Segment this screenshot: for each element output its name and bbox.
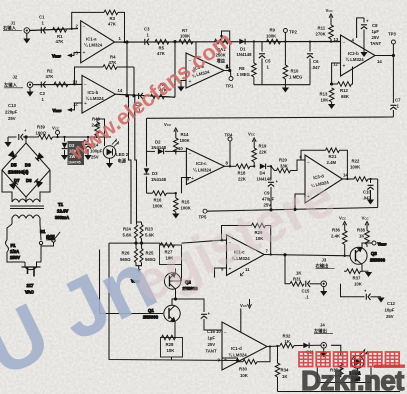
svg-text:1µF: 1µF xyxy=(372,29,380,34)
resistor R4 feedback IC1-b xyxy=(75,55,135,85)
svg-text:13: 13 xyxy=(73,80,78,85)
capacitor C6 xyxy=(307,40,321,84)
ground under J2 xyxy=(26,88,33,97)
ground under J4 xyxy=(320,348,327,357)
svg-text:10µF: 10µF xyxy=(385,308,395,313)
wire Vref arrow IC1-b pin12 xyxy=(53,103,83,113)
svg-text:R11: R11 xyxy=(318,26,326,31)
svg-text:10K: 10K xyxy=(167,348,176,353)
resistor R19 xyxy=(252,144,268,168)
svg-text:VCC: VCC xyxy=(240,303,248,308)
wire IC1-c minus input from summing xyxy=(182,240,227,243)
resistor R13 xyxy=(320,88,334,104)
node Q1-Q2 junction xyxy=(172,295,177,306)
svg-text:D3: D3 xyxy=(152,171,158,176)
wire Vref arrow IC1-a pin3 xyxy=(52,53,81,59)
capacitor C9 electrolytic xyxy=(262,166,279,210)
svg-text:25V: 25V xyxy=(8,116,16,121)
svg-text:R9: R9 xyxy=(270,28,276,33)
resistor R6 xyxy=(151,82,176,99)
diode D4 xyxy=(257,164,273,182)
wire IC3-d output xyxy=(342,178,354,180)
transistor Q2 2N3906 xyxy=(164,265,198,296)
ground IC3-a plus input xyxy=(177,81,186,92)
resistor R29 feedback xyxy=(222,223,272,255)
resistor R18 xyxy=(224,164,254,182)
op-amp IC3-a xyxy=(186,42,224,88)
ground under J3 xyxy=(320,287,327,296)
svg-text:−: − xyxy=(343,40,346,46)
svg-text:R32: R32 xyxy=(283,334,291,339)
svg-text:R2: R2 xyxy=(47,69,53,74)
power Vcc for R11 xyxy=(326,8,334,23)
wire J1 input row A xyxy=(30,29,78,31)
ground under C8 xyxy=(360,52,367,57)
svg-text:1N4148: 1N4148 xyxy=(151,145,167,150)
capacitor C5 xyxy=(259,42,271,85)
svg-text:10K: 10K xyxy=(240,373,249,378)
resistor R22 xyxy=(350,159,378,182)
svg-text:C8: C8 xyxy=(372,23,378,28)
power Vcc for R38 xyxy=(362,216,370,231)
svg-text:C6: C6 xyxy=(313,59,319,64)
test point TP4 xyxy=(225,133,233,168)
svg-text:2N3906: 2N3906 xyxy=(370,258,386,263)
diode D2 xyxy=(147,140,177,155)
svg-text:−: − xyxy=(224,330,227,336)
resistor R2 xyxy=(46,69,69,87)
svg-text:J2: J2 xyxy=(13,75,18,80)
op-amp IC1-b xyxy=(73,75,123,113)
ground under J1 xyxy=(23,33,30,43)
capacitor C11 xyxy=(303,343,321,355)
capacitor C10 xyxy=(363,178,374,201)
svg-text:100K: 100K xyxy=(180,138,191,143)
svg-text:R5: R5 xyxy=(159,46,165,51)
svg-text:R12: R12 xyxy=(340,88,348,93)
svg-text:R7: R7 xyxy=(182,28,188,33)
resistor R11 xyxy=(316,23,334,43)
resistor R37 xyxy=(344,269,363,287)
wire summing rail xyxy=(109,239,160,249)
svg-text:1K: 1K xyxy=(282,374,288,379)
resistor R31 xyxy=(285,255,304,286)
node Vref divider xyxy=(131,263,142,284)
svg-text:1N4148: 1N4148 xyxy=(151,177,167,182)
resistor R3 feedback IC1-a xyxy=(72,10,126,43)
power Vcc tap node xyxy=(52,126,60,139)
svg-text:VREF: VREF xyxy=(378,242,387,247)
wire long feedback line y117 xyxy=(147,117,394,118)
resistor R9 xyxy=(266,28,281,44)
svg-text:¼ LM324: ¼ LM324 xyxy=(84,43,103,48)
svg-text:D7: D7 xyxy=(14,178,20,183)
svg-text:R19: R19 xyxy=(259,144,267,149)
resistor R1 xyxy=(53,28,67,45)
svg-text:Dzkf.net: Dzkf.net xyxy=(301,365,404,394)
test point TP2 xyxy=(283,29,297,43)
svg-text:1µF: 1µF xyxy=(208,336,216,341)
wire IC1-c plus input xyxy=(215,268,227,278)
svg-text:D5: D5 xyxy=(11,163,17,168)
connector J1 xyxy=(3,21,30,34)
svg-text:R13: R13 xyxy=(320,92,328,97)
svg-text:R20: R20 xyxy=(279,158,287,163)
svg-text:R14: R14 xyxy=(181,132,189,137)
resistor R25 xyxy=(140,249,156,263)
svg-text:电源: 电源 xyxy=(118,158,127,165)
svg-text:1K: 1K xyxy=(285,339,291,344)
svg-text:25V: 25V xyxy=(208,342,216,347)
svg-text:2.4M: 2.4M xyxy=(327,160,337,165)
svg-text:VCC: VCC xyxy=(52,126,60,131)
AC plug 117VAC xyxy=(22,262,41,295)
capacitor C16 coupling xyxy=(176,299,223,354)
svg-text:¼ LM324: ¼ LM324 xyxy=(193,168,212,173)
wire IC3-a output riser xyxy=(224,42,231,72)
svg-text:TANT: TANT xyxy=(370,41,382,46)
ground under R15 xyxy=(172,214,179,219)
svg-text:R8: R8 xyxy=(239,66,245,71)
svg-text:+: + xyxy=(343,64,346,70)
resistor R35 xyxy=(329,363,343,379)
connector J3 output right xyxy=(316,258,335,287)
svg-text:C15: C15 xyxy=(302,289,310,294)
svg-text:D6: D6 xyxy=(25,163,31,168)
potentiometer RA1 gain xyxy=(215,31,231,65)
svg-text:R4: R4 xyxy=(110,55,116,60)
wire oscillator box left xyxy=(146,118,148,193)
transformer T1 xyxy=(10,199,69,224)
svg-text:¼ LM324: ¼ LM324 xyxy=(86,96,105,101)
svg-text:−: − xyxy=(307,160,310,166)
svg-text:C13: C13 xyxy=(8,103,16,108)
svg-text:IC2-b: IC2-b xyxy=(348,51,359,56)
svg-text:R18: R18 xyxy=(238,171,246,176)
svg-text:1N4148: 1N4148 xyxy=(237,52,253,57)
svg-text:R30: R30 xyxy=(239,367,247,372)
capacitor C1 xyxy=(39,15,46,34)
resistor R15 xyxy=(174,192,192,213)
ground right of C12 xyxy=(377,298,384,303)
test point TP5 xyxy=(199,209,208,219)
op-amp IC1-a xyxy=(76,21,122,63)
resistor R39 xyxy=(36,125,112,140)
svg-text:R31: R31 xyxy=(293,277,301,282)
logo red underline bar xyxy=(374,365,405,368)
svg-text:100K: 100K xyxy=(350,165,361,170)
resistor R10 xyxy=(283,42,303,85)
resistor R34 xyxy=(275,345,289,392)
transistor Q3 2N3906 xyxy=(350,243,386,270)
svg-text:68K: 68K xyxy=(341,94,350,99)
ground under zener xyxy=(61,155,68,160)
wire LED branch xyxy=(278,345,401,391)
svg-text:TP1: TP1 xyxy=(226,84,234,89)
svg-text:1K: 1K xyxy=(296,271,302,276)
svg-text:47K: 47K xyxy=(109,60,118,65)
op-amp IC3-d xyxy=(300,155,349,204)
svg-text:+: + xyxy=(83,50,86,56)
svg-text:12: 12 xyxy=(333,62,338,67)
svg-text:25V: 25V xyxy=(386,314,394,319)
resistor R27 xyxy=(160,243,182,265)
svg-text:C3: C3 xyxy=(144,27,150,32)
power Vcc IC1-c pin11 xyxy=(240,299,252,308)
svg-text:VREF: VREF xyxy=(53,108,62,113)
svg-text:100K: 100K xyxy=(266,34,277,39)
svg-text:VREF: VREF xyxy=(52,54,61,59)
svg-text:1K: 1K xyxy=(359,234,365,239)
svg-text:R28: R28 xyxy=(166,342,174,347)
svg-text:R22: R22 xyxy=(352,159,360,164)
svg-text:R37: R37 xyxy=(353,276,361,281)
capacitor C8 tantalum xyxy=(361,18,382,52)
resistor R7 xyxy=(179,28,193,44)
svg-text:D4: D4 xyxy=(260,171,266,176)
svg-text:12.6V: 12.6V xyxy=(57,209,68,214)
svg-text:¼ LM324: ¼ LM324 xyxy=(229,353,248,358)
svg-text:C12: C12 xyxy=(387,301,395,306)
svg-text:1N4148: 1N4148 xyxy=(257,177,273,182)
ground under C14 xyxy=(84,155,91,160)
svg-text:100K: 100K xyxy=(180,34,191,39)
wire row B to row A join xyxy=(174,41,176,98)
wire IC1-d pin9 xyxy=(222,358,239,362)
svg-text:T1: T1 xyxy=(58,202,64,207)
svg-text:100K: 100K xyxy=(181,206,192,211)
svg-text:1 MEG: 1 MEG xyxy=(289,75,303,80)
svg-text:25V: 25V xyxy=(372,35,380,40)
svg-text:R38: R38 xyxy=(357,228,365,233)
svg-text:R34: R34 xyxy=(281,368,289,373)
resistor R14 xyxy=(174,132,191,155)
svg-text:IC1-b: IC1-b xyxy=(88,90,99,95)
svg-text:S1: S1 xyxy=(40,229,46,234)
svg-text:TANT: TANT xyxy=(206,349,218,354)
svg-text:左输入: 左输入 xyxy=(3,82,18,89)
ground under C10 xyxy=(367,200,374,205)
diode D1 xyxy=(237,39,253,57)
capacitor C14 xyxy=(83,136,103,160)
svg-text:47K: 47K xyxy=(108,22,117,27)
svg-text:VCC: VCC xyxy=(326,8,334,13)
logo red hanzi 电子开发社区 xyxy=(299,352,399,367)
svg-text:−: − xyxy=(84,83,87,89)
svg-text:¼ LM324: ¼ LM324 xyxy=(346,57,365,62)
svg-text:1 MEG: 1 MEG xyxy=(237,72,251,77)
wire IC1-d output row xyxy=(267,345,280,348)
op-amp IC2-b xyxy=(331,35,382,76)
svg-text:TP4: TP4 xyxy=(225,133,233,138)
connector J2 xyxy=(3,75,33,89)
svg-text:100Ω: 100Ω xyxy=(36,131,47,136)
svg-text:VCC: VCC xyxy=(164,122,172,127)
svg-text:J4: J4 xyxy=(320,323,325,328)
svg-text:R23: R23 xyxy=(145,227,153,232)
svg-text:10: 10 xyxy=(216,329,221,334)
svg-text:2.4K: 2.4K xyxy=(331,234,341,239)
diode D3 xyxy=(144,168,167,182)
svg-text:5.6K: 5.6K xyxy=(145,233,155,238)
power Vcc for R36 xyxy=(339,216,347,231)
capacitor C15 xyxy=(302,281,322,300)
op-amp IC1-d xyxy=(216,322,267,370)
svg-text:100K: 100K xyxy=(153,204,164,209)
svg-text:TP3: TP3 xyxy=(388,32,396,37)
ground right of R37 xyxy=(362,271,372,277)
svg-text:270K: 270K xyxy=(316,32,327,37)
svg-text:R36: R36 xyxy=(332,228,340,233)
svg-text:+: + xyxy=(191,176,194,182)
resistor R26 xyxy=(120,249,138,263)
transistor Q1 2N3906 xyxy=(143,305,180,327)
bridge rectifier D5-D8 xyxy=(2,136,50,202)
wire bus1 left channel xyxy=(126,41,131,224)
svg-text:300mA: 300mA xyxy=(55,215,69,220)
svg-text:R16: R16 xyxy=(154,198,162,203)
svg-text:C5: C5 xyxy=(265,59,271,64)
capacitor C2 xyxy=(40,81,46,102)
ground under R13 xyxy=(328,104,335,109)
svg-text:R3: R3 xyxy=(110,16,116,21)
svg-text:−: − xyxy=(189,152,192,158)
wire ground rail mid-top xyxy=(254,85,310,88)
op-amp IC1-c xyxy=(221,235,269,276)
power Vcc for R19 xyxy=(248,132,256,148)
svg-text:Q3: Q3 xyxy=(371,251,377,256)
svg-text:14: 14 xyxy=(377,59,382,64)
svg-text:C16: C16 xyxy=(207,329,215,334)
svg-text:R21: R21 xyxy=(329,154,337,159)
svg-text:VCC: VCC xyxy=(248,132,256,137)
test point TP3 xyxy=(388,32,396,56)
resistor R30 feedback xyxy=(238,345,272,378)
svg-text:D1: D1 xyxy=(240,47,246,52)
wire IC1a output row A xyxy=(115,41,341,44)
power Vcc for R14 xyxy=(164,122,178,137)
wire Q1 base branch xyxy=(100,250,164,314)
test point TP1 xyxy=(226,71,234,89)
svg-text:.047: .047 xyxy=(312,65,321,70)
resistor R5 xyxy=(155,40,169,57)
resistor R12 feedback xyxy=(332,67,353,100)
svg-text:D8: D8 xyxy=(26,178,32,183)
LED2 power indicator xyxy=(103,140,129,165)
svg-text:TP2: TP2 xyxy=(289,30,297,35)
svg-text:1N4004(4): 1N4004(4) xyxy=(8,170,29,175)
wire oscillator box bottom xyxy=(147,192,176,194)
wire IC1b output row B xyxy=(115,94,175,97)
node D1 out xyxy=(253,40,255,42)
resistor R8 xyxy=(237,42,257,85)
resistor R20 xyxy=(271,158,305,173)
resistor R24 xyxy=(123,225,138,239)
svg-text:47K: 47K xyxy=(56,39,65,44)
node B in2 xyxy=(73,83,75,85)
svg-text:22K: 22K xyxy=(238,177,247,182)
svg-text:33K: 33K xyxy=(280,164,289,169)
svg-text:IC1-a: IC1-a xyxy=(86,37,97,42)
wire IC1-d pin4 supply riser xyxy=(240,309,242,333)
node Vref output tap xyxy=(367,241,387,247)
switch S1 xyxy=(36,224,60,262)
wire Vref rail xyxy=(207,208,378,212)
wire bus2 right channel xyxy=(133,67,137,224)
connector J4 output left xyxy=(313,323,333,349)
ground mid-top rail xyxy=(282,88,289,93)
wire J2 input row B xyxy=(33,83,82,85)
svg-text:10K: 10K xyxy=(321,98,330,103)
svg-text:C2: C2 xyxy=(40,91,46,96)
svg-text:10: 10 xyxy=(178,146,183,151)
op-amp IC2-c xyxy=(176,146,229,185)
svg-text:250V: 250V xyxy=(10,255,20,260)
svg-text:47K: 47K xyxy=(46,74,55,79)
fuse F1 xyxy=(6,224,26,262)
svg-text:.1: .1 xyxy=(305,295,309,300)
wire IC1-c output to Q3 base xyxy=(264,254,350,256)
ground under LED2 xyxy=(106,163,113,168)
svg-text:C1: C1 xyxy=(39,15,45,20)
resistor R40 xyxy=(92,117,105,147)
svg-text:C7: C7 xyxy=(395,98,401,103)
capacitor C3 xyxy=(144,27,150,46)
resistor R23 xyxy=(137,222,155,239)
wire IC2-b pin12 input xyxy=(330,63,340,85)
wire IC2-c pin9 xyxy=(182,178,192,194)
capacitor C7 xyxy=(390,56,401,118)
svg-text:22K: 22K xyxy=(259,150,268,155)
ground under C13 xyxy=(4,142,11,147)
LED1 indicator xyxy=(350,350,368,383)
capacitor C4 xyxy=(136,93,143,113)
svg-text:220µF: 220µF xyxy=(5,110,18,115)
svg-text:LED 2: LED 2 xyxy=(116,152,129,157)
svg-text:+: + xyxy=(84,101,87,107)
svg-text:1/2A: 1/2A xyxy=(10,249,19,254)
svg-text:R24: R24 xyxy=(123,227,131,232)
wire IC2-b pin4 supply xyxy=(357,18,364,38)
svg-text:R10: R10 xyxy=(291,69,299,74)
svg-text:12: 12 xyxy=(73,102,78,107)
resistor R16 xyxy=(153,191,167,209)
svg-text:14: 14 xyxy=(118,88,123,93)
capacitor C12 xyxy=(341,284,396,319)
resistor R28 xyxy=(161,327,183,360)
svg-text:J3: J3 xyxy=(322,258,327,263)
resistor R36 xyxy=(331,228,347,257)
svg-text:C10: C10 xyxy=(363,190,371,195)
resistor R38 xyxy=(357,228,369,248)
wire IC2-b output xyxy=(375,54,395,56)
svg-text:47K: 47K xyxy=(157,51,166,56)
svg-text:IC2-c: IC2-c xyxy=(196,161,207,166)
wire IC3-d output corner to Vref rail xyxy=(377,179,379,208)
node A in1 xyxy=(71,28,73,30)
wire left loop vertical xyxy=(109,243,238,360)
svg-text:VCC: VCC xyxy=(362,216,370,221)
resistor R32 xyxy=(280,334,304,348)
capacitor C13 filter xyxy=(5,103,39,142)
svg-text:−: − xyxy=(83,24,86,30)
svg-text:R39: R39 xyxy=(37,125,45,130)
svg-text:IC1-d: IC1-d xyxy=(231,346,242,351)
resistor R21 feedback xyxy=(301,148,349,180)
svg-text:R15: R15 xyxy=(182,200,190,205)
zener D3 16V xyxy=(62,136,84,165)
wire IC3-d plus input xyxy=(295,194,305,209)
